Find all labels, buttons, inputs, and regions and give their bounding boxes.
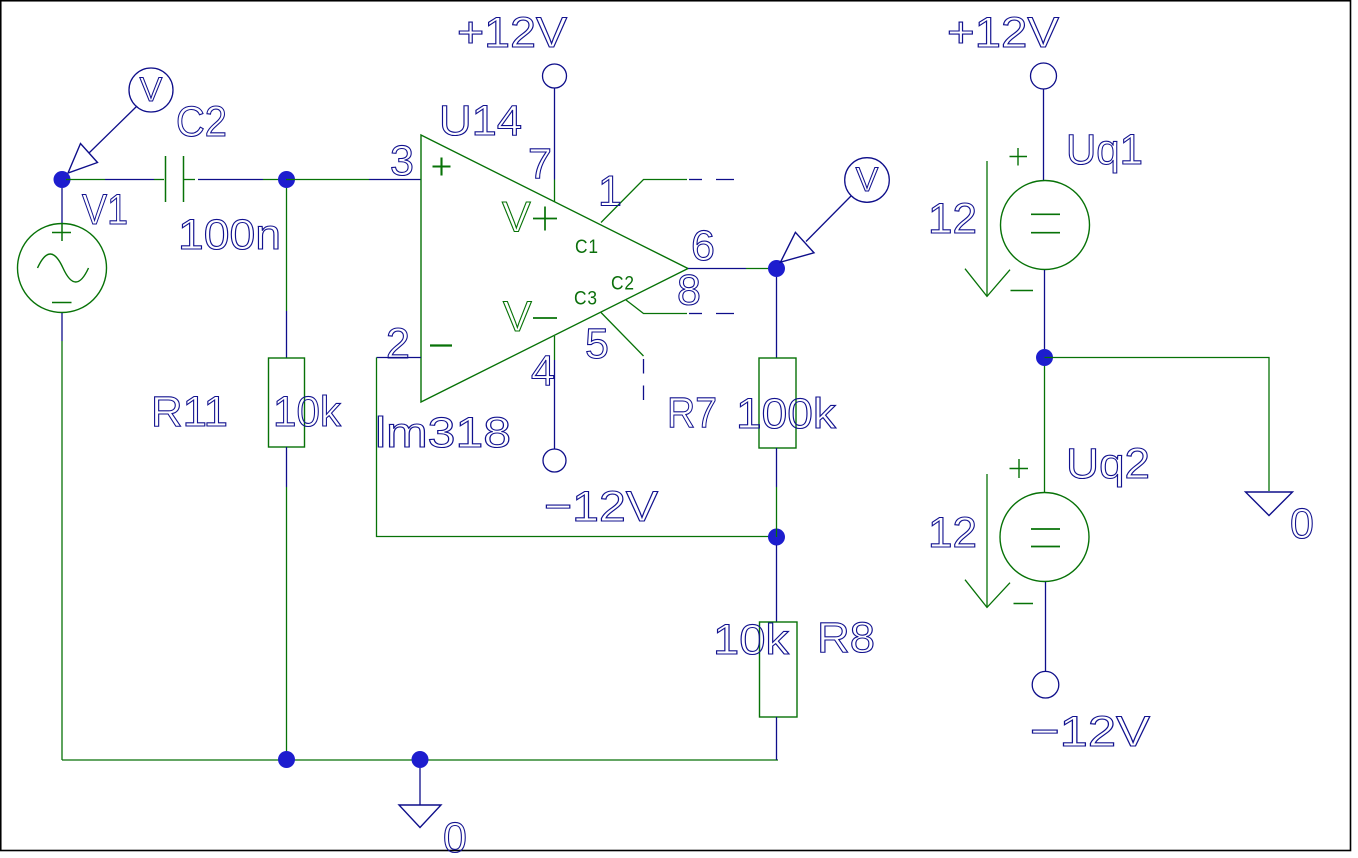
pin 2 marker -	[430, 344, 452, 346]
svg-text:10k: 10k	[273, 388, 341, 436]
pin 6 wire	[688, 268, 746, 270]
resistor R7	[759, 358, 796, 448]
ground GND1	[399, 768, 441, 828]
wire	[1045, 582, 1047, 671]
svg-text:U14: U14	[439, 97, 522, 145]
source Uq2	[1000, 493, 1089, 582]
terminal -12V (op-amp)	[543, 449, 566, 472]
wire	[61, 341, 63, 760]
wire	[105, 179, 154, 181]
svg-text:C3: C3	[574, 289, 598, 310]
svg-text:12: 12	[928, 509, 977, 557]
svg-text:12: 12	[928, 195, 977, 243]
capacitor C2	[154, 156, 195, 202]
svg-text:+12V: +12V	[457, 9, 567, 57]
svg-text:8: 8	[677, 267, 701, 315]
svg-text:100k: 100k	[736, 390, 837, 438]
pin 3 marker +	[433, 158, 451, 176]
svg-text:R7: R7	[667, 389, 717, 437]
plus mark Uq2	[1010, 459, 1029, 478]
wire	[1045, 358, 1270, 492]
svg-text:R11: R11	[151, 388, 228, 436]
wire	[66, 179, 105, 181]
wire	[263, 179, 286, 181]
wire	[198, 179, 263, 181]
pin 7 wire	[554, 88, 556, 180]
wire bottom rail	[62, 759, 778, 761]
pin 8 lead	[626, 300, 687, 314]
wire pin2 feedback	[377, 357, 422, 359]
resistor R8	[760, 622, 798, 717]
svg-text:10k: 10k	[713, 616, 790, 664]
junction on rail at ground	[412, 751, 429, 768]
svg-text:Uq1: Uq1	[1066, 126, 1143, 174]
pin 8 dashes	[689, 313, 734, 315]
wire	[1044, 366, 1046, 492]
svg-text:4: 4	[531, 347, 555, 395]
svg-text:C2: C2	[611, 274, 635, 295]
svg-text:0: 0	[443, 814, 467, 858]
wire	[776, 717, 778, 760]
svg-text:V1: V1	[82, 186, 128, 234]
svg-text:R8: R8	[817, 614, 875, 662]
wire	[61, 313, 63, 341]
svg-text:+12V: +12V	[947, 9, 1059, 57]
svg-text:−12V: −12V	[1030, 708, 1150, 756]
terminal +12V (right)	[1031, 63, 1057, 89]
svg-text:1: 1	[598, 168, 622, 216]
op-amp U14 triangle	[421, 135, 688, 402]
resistor R11	[269, 358, 305, 447]
svg-text:6: 6	[691, 222, 715, 270]
wire	[1043, 89, 1045, 181]
voltage probe VP2	[781, 158, 890, 263]
wire	[377, 358, 778, 537]
pin 1 lead	[601, 180, 687, 223]
wire	[286, 188, 288, 311]
voltage source V1	[18, 224, 107, 313]
wire	[776, 448, 778, 487]
voltage probe VP1	[68, 68, 173, 173]
wire	[61, 188, 63, 224]
svg-text:−12V: −12V	[544, 483, 658, 531]
svg-text:Uq2: Uq2	[1066, 440, 1150, 488]
svg-text:C2: C2	[176, 98, 227, 146]
pin 4 wire	[554, 360, 556, 449]
wire	[776, 545, 778, 622]
pin 5 lead	[601, 313, 644, 357]
svg-text:V: V	[502, 194, 531, 242]
plus mark Uq1	[1010, 148, 1028, 166]
svg-text:7: 7	[528, 140, 552, 188]
svg-text:5: 5	[585, 320, 609, 368]
wire	[369, 179, 421, 181]
wire	[1044, 270, 1046, 349]
wire	[776, 487, 778, 537]
pin 7 stub	[554, 180, 556, 203]
svg-text:V: V	[140, 71, 163, 109]
arrow Uq1	[965, 161, 1010, 296]
minus mark Uq2	[1014, 603, 1034, 605]
label V+	[502, 194, 557, 242]
pin 4 stub	[554, 336, 556, 360]
pin 5 dashes	[643, 359, 645, 400]
wire	[286, 179, 369, 181]
junction feedback node	[768, 529, 785, 546]
svg-text:C1: C1	[575, 237, 599, 258]
minus mark Uq1	[1011, 290, 1034, 292]
svg-text:lm318: lm318	[375, 409, 511, 457]
svg-text:V: V	[503, 293, 532, 341]
ground GND2	[1246, 492, 1293, 516]
svg-text:2: 2	[386, 320, 410, 368]
wire	[286, 447, 288, 487]
svg-text:0: 0	[1290, 500, 1314, 548]
node A junction	[278, 171, 295, 188]
wire	[286, 487, 288, 760]
node IN junction	[54, 171, 71, 188]
pin 1 dashes	[689, 179, 734, 181]
arrow Uq2	[965, 474, 1010, 607]
svg-text:V: V	[856, 161, 879, 199]
wire	[746, 268, 768, 270]
terminal +12V (op-amp)	[543, 64, 567, 88]
junction on rail below R11	[278, 751, 295, 768]
wire	[776, 277, 778, 358]
svg-text:100n: 100n	[178, 211, 281, 259]
terminal -12V (right)	[1032, 671, 1059, 698]
wire	[286, 311, 288, 358]
label V-	[503, 293, 557, 341]
node MID junction	[1036, 349, 1053, 366]
svg-text:3: 3	[390, 137, 414, 185]
source Uq1	[1001, 181, 1090, 270]
node OUT junction	[768, 260, 785, 277]
